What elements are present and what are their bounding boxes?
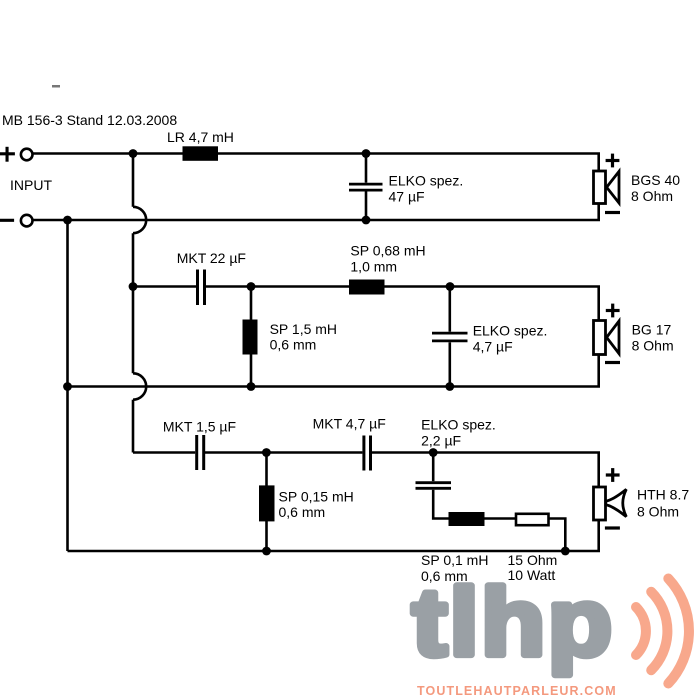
svg-text:ELKO spez.: ELKO spez. [473,323,548,339]
svg-text:TOUTLEHAUTPARLEUR.COM: TOUTLEHAUTPARLEUR.COM [417,684,617,698]
svg-text:SP 0,15 mH: SP 0,15 mH [279,489,354,505]
svg-text:47 µF: 47 µF [389,188,425,204]
svg-text:BGS 40: BGS 40 [631,172,680,188]
svg-text:SP 0,68 mH: SP 0,68 mH [350,242,425,258]
svg-text:tlhp: tlhp [412,569,614,676]
svg-text:LR 4,7 mH: LR 4,7 mH [167,129,234,145]
svg-text:8 Ohm: 8 Ohm [637,503,679,519]
svg-text:MKT 4,7 µF: MKT 4,7 µF [313,415,386,431]
svg-text:4,7 µF: 4,7 µF [473,339,513,355]
svg-text:MB 156-3 Stand 12.03.2008: MB 156-3 Stand 12.03.2008 [2,112,177,128]
svg-text:0,6 mm: 0,6 mm [279,504,326,520]
svg-text:ELKO spez.: ELKO spez. [421,417,496,433]
svg-text:INPUT: INPUT [10,177,52,193]
svg-text:HTH 8.7: HTH 8.7 [637,487,689,503]
svg-text:2,2 µF: 2,2 µF [421,433,461,449]
svg-text:ELKO spez.: ELKO spez. [389,172,464,188]
svg-text:MKT 22 µF: MKT 22 µF [177,250,246,266]
svg-text:1,0 mm: 1,0 mm [350,258,397,274]
svg-text:15 Ohm: 15 Ohm [508,552,558,568]
svg-text:BG 17: BG 17 [632,321,672,337]
svg-text:0,6 mm: 0,6 mm [270,337,317,353]
svg-text:8 Ohm: 8 Ohm [631,188,673,204]
svg-text:8 Ohm: 8 Ohm [632,337,674,353]
svg-text:SP 0,1 mH: SP 0,1 mH [421,552,488,568]
svg-text:SP 1,5 mH: SP 1,5 mH [270,321,337,337]
svg-text:MKT 1,5 µF: MKT 1,5 µF [163,418,236,434]
